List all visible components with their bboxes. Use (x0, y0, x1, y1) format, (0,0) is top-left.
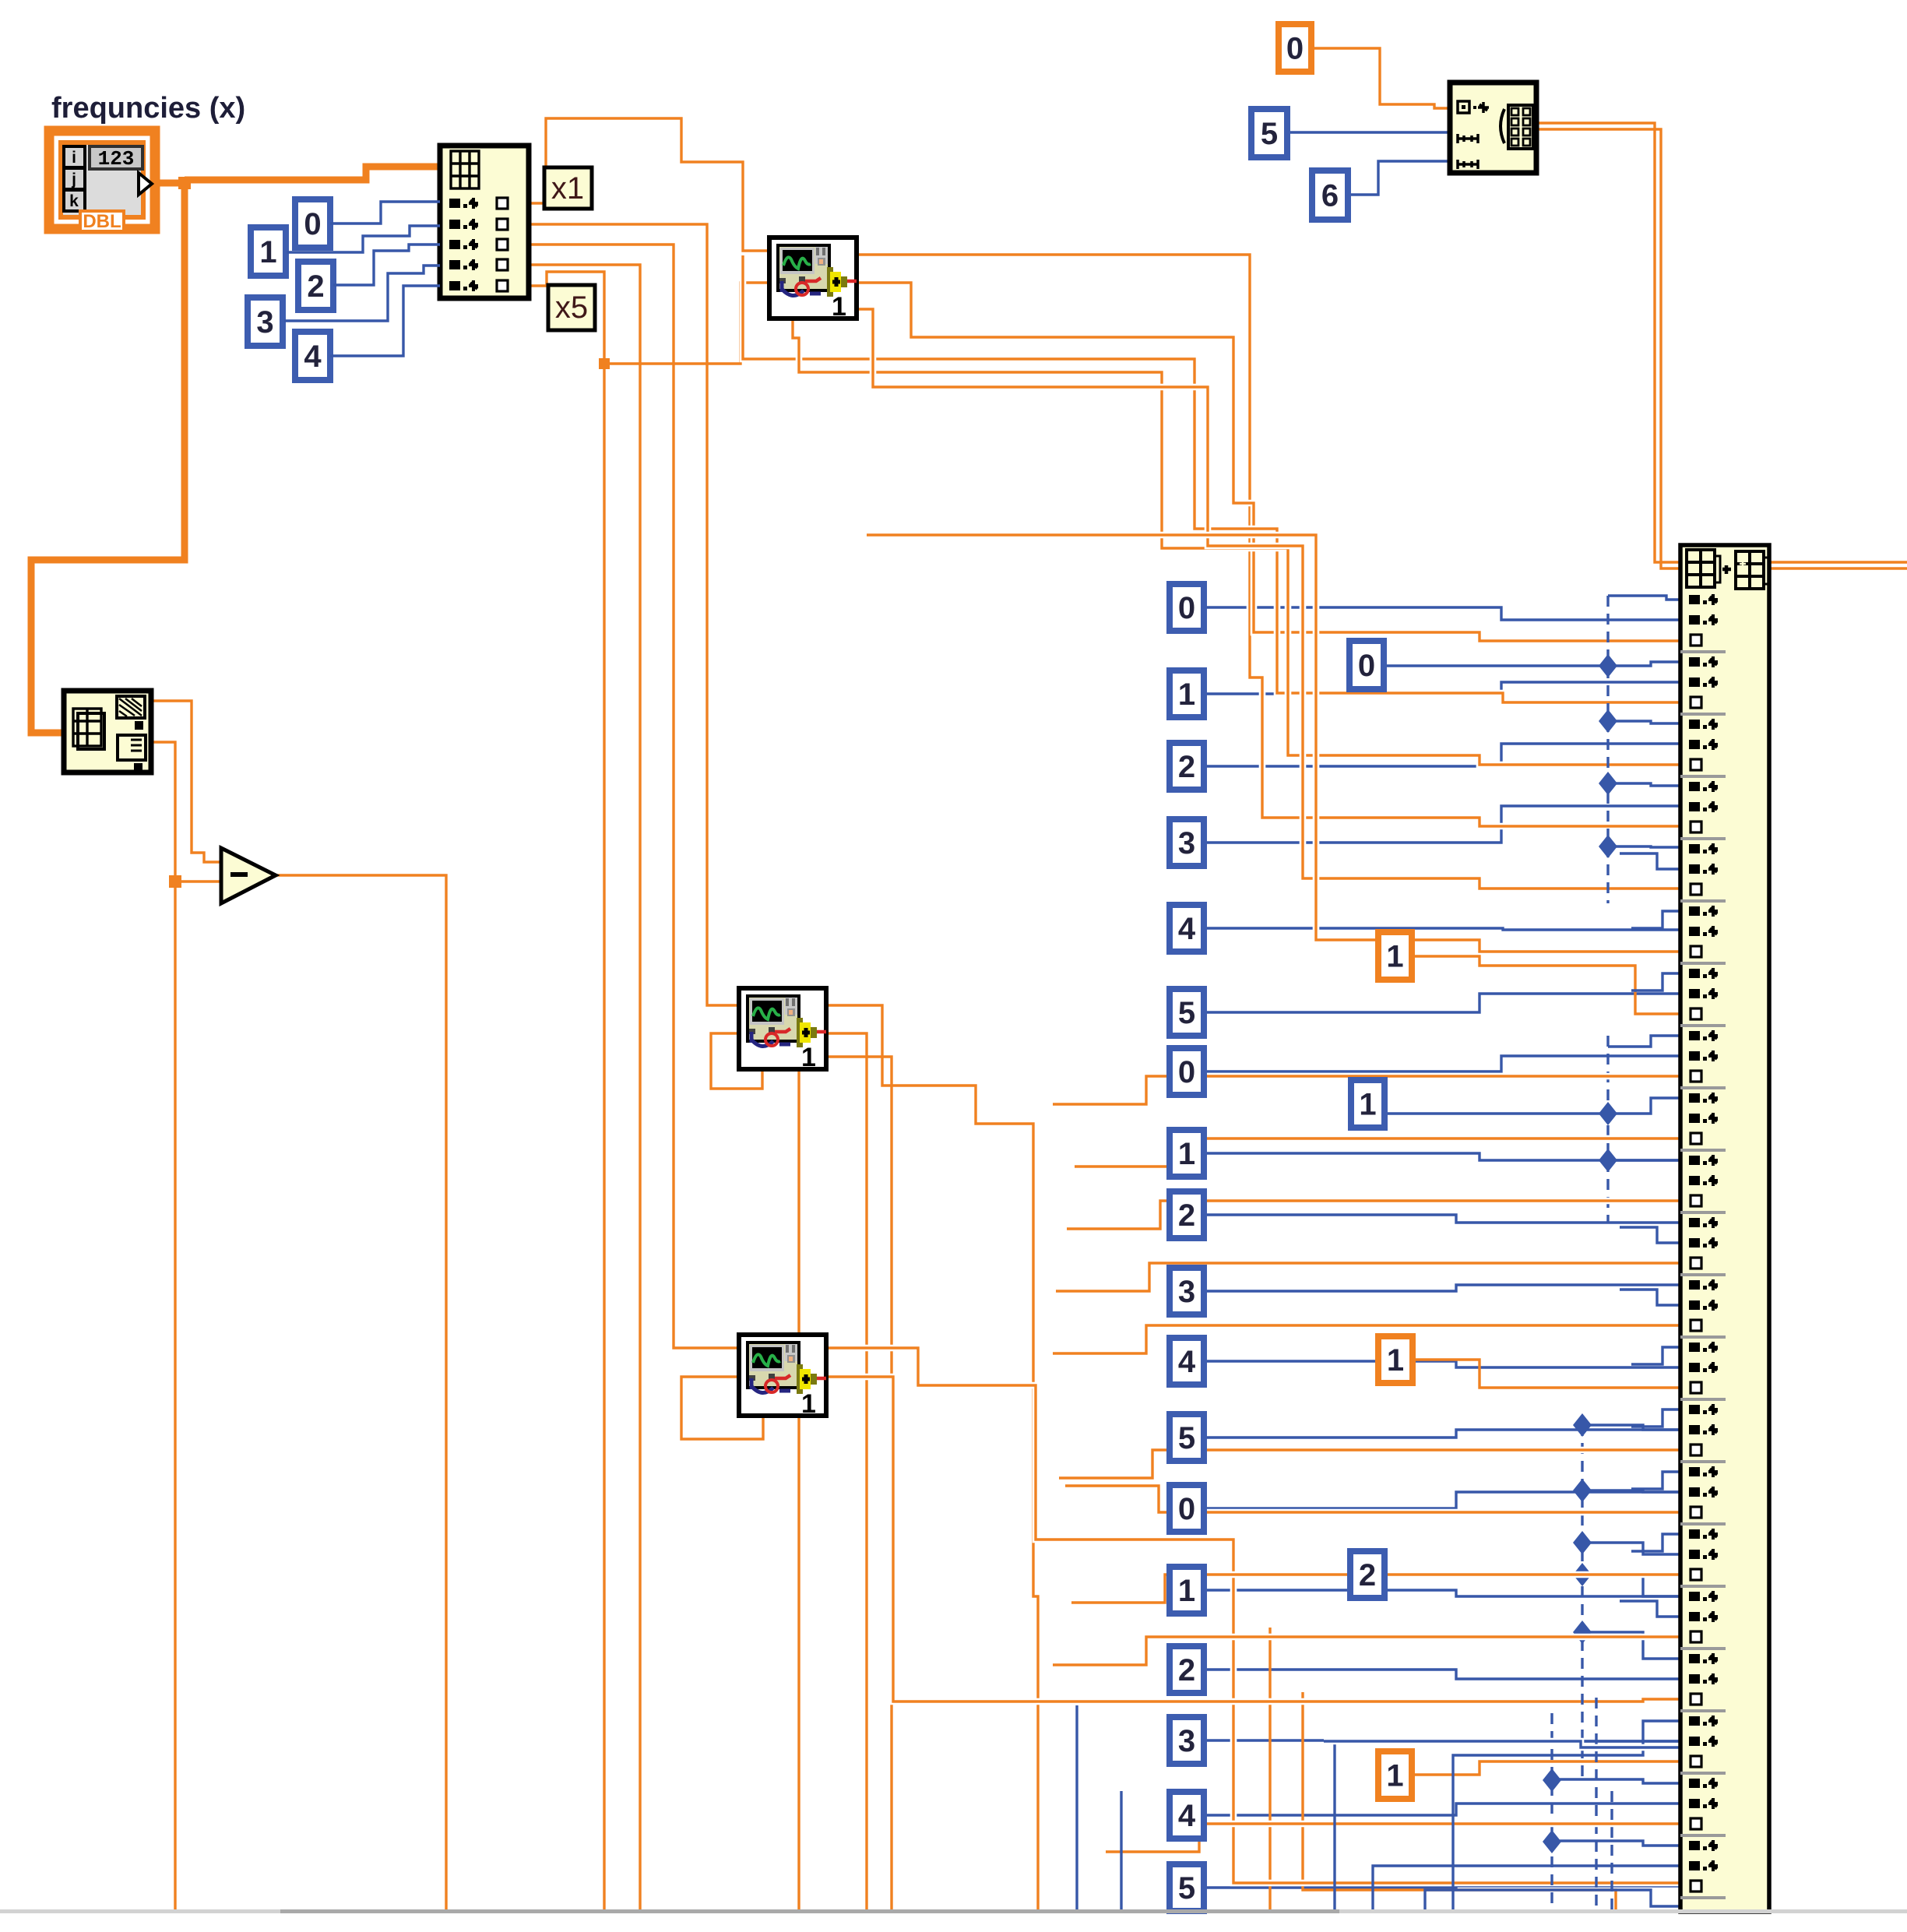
wire blue from left-column constant 10 to node input (1204, 1361, 1680, 1367)
svg-text:x1: x1 (551, 171, 584, 206)
svg-text:2: 2 (1359, 1558, 1376, 1592)
wire blue from left-column constant 6 to node input (1204, 1056, 1680, 1072)
constant 2 (left column y=1560) (1170, 1191, 1204, 1238)
constant 5 (left column y=1300) (1170, 989, 1204, 1036)
wire blue distribution vertical D4 with dots (1543, 1713, 1680, 1909)
wire blue from left-column constant 9 to node input (1204, 1285, 1680, 1291)
wire D3 branch at 1981 (1573, 1531, 1680, 1554)
wire blue stub into node row 1810 (1631, 1409, 1680, 1427)
wire funnel 2 x1-line branch to node row (743, 255, 1680, 702)
wire orange feeder to square row 2342 (1106, 1824, 1680, 1852)
svg-text:0: 0 (1286, 32, 1304, 66)
svg-text:1: 1 (1386, 940, 1403, 974)
wire blue L bottom 3 (1425, 1890, 1680, 1909)
wire blue from left-column constant 0 to node input (1204, 607, 1680, 620)
svg-text:2: 2 (1178, 1198, 1195, 1233)
wire blue vertical filler 1 (1075, 1705, 1078, 1909)
wire blue stub into node row 1596 (1620, 1227, 1680, 1243)
svg-text:k: k (69, 192, 79, 210)
wire x5 branch to simulate-signal 1 lower input (604, 283, 769, 364)
wire blue stub into node row 1970 (1631, 1534, 1680, 1551)
wire blue from left-column constant 11 to node input (1204, 1430, 1680, 1438)
svg-text:3: 3 (1178, 826, 1195, 860)
wire blue from left-column constant 17 to node input (1204, 1886, 1680, 1888)
constant 1 (col2 orange upper) (1378, 932, 1412, 980)
svg-text:0: 0 (1178, 1055, 1195, 1089)
wire thick matrix from frequncies terminal to junction (153, 180, 180, 187)
svg-text:frequncies (x): frequncies (x) (51, 92, 245, 125)
wire D1 branch at 926 (1599, 709, 1680, 733)
constant 2 (col2 blue) (1350, 1551, 1385, 1598)
wire orange vertical filler bottom right A (1268, 1628, 1271, 1909)
wire orange from constant 1 (col2 middle) to node row (1413, 1360, 1680, 1388)
scrollbar top line (0, 1909, 1907, 1913)
svg-text:6: 6 (1321, 179, 1339, 213)
wire blue from left-column constant 13 to node input (1204, 1590, 1680, 1596)
constant 4 (left column y=1192) (1170, 905, 1204, 952)
wire index row4 out long vertical to bottom (529, 265, 640, 1909)
build-matrix big node with repeated element/index inputs (1680, 545, 1769, 1912)
wire blue L bottom extra1 (1453, 1721, 1680, 1909)
constant 0 (left column y=780) (1170, 584, 1204, 631)
svg-text:i: i (72, 149, 76, 167)
svg-text:123: 123 (98, 147, 135, 171)
wire orange feeder to square row 1702 (1053, 1325, 1680, 1353)
wire blue constant1 to index row2 (287, 226, 440, 252)
svg-text:2: 2 (1178, 750, 1195, 784)
wire sim3 bottom output wrap to its lower-left input (681, 1377, 763, 1439)
wire orange from constant 1 (col2 lower) to node row (1412, 1761, 1680, 1775)
simulate-signal express VI 3 (739, 1335, 826, 1419)
wire D2 branch at 1490 (1599, 1149, 1680, 1172)
wire D1 branch at 855 (1599, 654, 1680, 677)
wire orange vertical filler near sim2 (797, 1068, 800, 1909)
wire branch to subtract y input (175, 880, 221, 882)
simulate-signal express VI 1 (769, 238, 857, 322)
svg-text:4: 4 (1178, 1345, 1196, 1379)
wire blue from left-column constant 16 to node input (1204, 1804, 1680, 1815)
wire D2 branch at 1344 (1608, 1036, 1680, 1047)
svg-text:0: 0 (1178, 591, 1195, 625)
wire double matrix output of big node to right edge (1769, 562, 1907, 568)
constant 1 (col2 orange lower) (1378, 1751, 1412, 1799)
wire blue stub into node row 1730 (1631, 1347, 1680, 1364)
svg-text:x5: x5 (555, 290, 588, 325)
wire sim3 top-right output staircase to node bottom row (826, 1348, 1680, 1883)
svg-text:5: 5 (1178, 996, 1195, 1030)
wire x1 line: index row1 out to simulate-signal 1 top input (529, 118, 769, 251)
wire blue stub into node row 1250 (1631, 973, 1680, 991)
wire blue distribution vertical D2 dashed (1606, 1036, 1609, 1223)
svg-text:1: 1 (259, 235, 276, 269)
svg-text:1: 1 (1386, 1759, 1403, 1793)
constant 0 (left column y=1376) (1170, 1048, 1204, 1095)
wire D3 branch at 1914 (1573, 1479, 1680, 1502)
label x1 constant (544, 167, 592, 209)
wire blue from left-column constant 5 to node input (1204, 994, 1680, 1012)
wire thick matrix down-left to matrix-size node (31, 183, 185, 733)
wire sim2 lower-right output long vertical to bottom (827, 1057, 892, 1909)
wire blue stub into node row 1116 (1620, 853, 1680, 869)
wire blue dashed vertical bottom right B (1610, 1791, 1613, 1909)
wire orange feeder to square row 2022 (1071, 1575, 1680, 1603)
wire orange vertical filler bottom right B (1303, 1692, 1616, 1909)
svg-text:4: 4 (304, 340, 322, 374)
svg-text:1: 1 (1359, 1088, 1376, 1122)
wire blue L bottom 1 (1335, 1741, 1680, 1909)
constant 2 (top-left group) (298, 262, 333, 310)
wire blue from left-column constant 2 to node input (1204, 744, 1680, 766)
constant 1 (left column y=1481) (1170, 1130, 1204, 1177)
wire orange from constant 0 to create-matrix node (1311, 48, 1450, 108)
wire junction dot on matrix-size output (169, 875, 181, 888)
wire double matrix from create-matrix node to big node header (1536, 123, 1680, 568)
subtract node (221, 848, 276, 903)
svg-text:5: 5 (1178, 1421, 1195, 1455)
svg-text:1: 1 (1178, 1137, 1195, 1171)
constant 0 (top-left group) (295, 199, 330, 248)
wire D1 branch at 1087 (1599, 835, 1680, 858)
wire thick matrix from junction to index-array node (185, 167, 440, 180)
wire index row2 out down to simulate-signal 2 top input (529, 224, 739, 1005)
constant 3 (left column y=1082) (1170, 819, 1204, 866)
svg-text:2: 2 (307, 269, 324, 304)
wire blue from constant 0 (col2) to distribution vertical (1384, 664, 1608, 667)
wire blue from left-column constant 3 to node input (1204, 806, 1680, 843)
constant 6 (top-right) (1312, 171, 1348, 220)
label frequncies (x) (51, 92, 245, 125)
wire blue stub into node row 1170 (1631, 911, 1680, 928)
svg-text:3: 3 (256, 305, 273, 340)
wire blue stub into node row 2076 (1620, 1601, 1680, 1617)
constant 2 (left column y=984) (1170, 743, 1204, 790)
simulate-signal express VI 2 (739, 988, 826, 1072)
wire sim3 mid-right output to node row via bottom run (826, 1377, 1680, 1701)
constant 3 (left column y=2235) (1170, 1717, 1204, 1764)
constant 3 (left column y=1658) (1170, 1268, 1204, 1314)
wire junction dot on x5 line (599, 358, 610, 369)
svg-text:1: 1 (1178, 677, 1195, 712)
wire blue from constant 5 to create-matrix node (1287, 131, 1450, 133)
wire orange feeder to square row 2102 (1053, 1637, 1680, 1665)
wire D1 branch at 1006 (1599, 772, 1680, 795)
wire blue vertical filler 2 (1120, 1791, 1122, 1909)
constant 2 (left column y=2144) (1170, 1646, 1204, 1693)
wire matrix-size top output to subtract x input (151, 701, 221, 862)
svg-text:0: 0 (304, 207, 321, 241)
constant 4 (top-left group) (295, 332, 330, 380)
wire funnel 1 sim1 mid output to node row (857, 283, 1680, 641)
wire orange feeder to square row 1622 (1056, 1263, 1680, 1291)
wire orange feeder to square row 1462 (1075, 1138, 1680, 1167)
constant 4 (left column y=2331) (1170, 1792, 1204, 1839)
wire blue from constant 6 to create-matrix node (1348, 161, 1450, 195)
wire funnel 4 sim1 lower-right output to node row (857, 309, 1680, 889)
svg-text:0: 0 (1178, 1492, 1195, 1526)
constant 1 (top-left group) (251, 227, 286, 276)
wire funnel 3 sim1 bottom output to node row (793, 319, 1680, 765)
wire blue from left-column constant 4 to node input (1204, 928, 1680, 930)
wire D3 branch at 2096 (1573, 1621, 1680, 1659)
wire blue from constant 2 (col2) to distribution vertical (1385, 1573, 1582, 1575)
wire D3 branch at 1830 (1573, 1413, 1680, 1437)
constant 5 (top-right) (1251, 109, 1287, 157)
svg-text:1: 1 (801, 1389, 816, 1419)
wire blue constant4 to index row5 (330, 286, 440, 356)
wire orange feeder to square row 1862 (1059, 1450, 1680, 1478)
wire matrix-size bottom output down to bottom edge (151, 742, 175, 1909)
wire blue from left-column constant 7 to node input (1204, 1153, 1680, 1160)
constant 0 (col2) (1349, 641, 1384, 689)
wire blue from left-column constant 14 to node input (1204, 1670, 1680, 1679)
constant 5 (left column y=1846) (1170, 1414, 1204, 1461)
wire blue constant2 to index row3 (333, 245, 440, 285)
index-array style node with 5 index inputs (440, 146, 529, 298)
wire orange feeder to square row 1542 (1067, 1201, 1680, 1229)
svg-text:0: 0 (1358, 649, 1375, 683)
wire x5 line: index row5 out long vertical to bottom (529, 272, 604, 1909)
svg-text:3: 3 (1178, 1275, 1195, 1309)
constant 5 (left column y=2424) (1170, 1864, 1204, 1911)
wire blue from left-column constant 12 to node input (1204, 1492, 1680, 1508)
wire blue stub into node row 1676 (1620, 1290, 1680, 1305)
wire blue dashed vertical bottom right A (1595, 1698, 1597, 1909)
wire sim2 mid-right output long vertical to bottom (827, 1033, 867, 1909)
wire funnel 5 to node row (867, 535, 1680, 952)
wire blue from left-column constant 8 to node input (1204, 1215, 1680, 1223)
constant 1 (left column y=2042) (1170, 1567, 1204, 1614)
wire orange from constant 1 (col2 upper) to node row (1412, 956, 1680, 1014)
svg-text:2: 2 (1178, 1653, 1195, 1687)
constant 0 (left column y=1937) (1170, 1485, 1204, 1532)
wire blue L bottom 2 (1373, 1866, 1680, 1909)
constant 4 (left column y=1748) (1170, 1338, 1204, 1385)
svg-text:1: 1 (832, 292, 846, 322)
constant 1 (left column y=891) (1170, 670, 1204, 717)
wire D3 branch at 2022 (1573, 1563, 1680, 1596)
wire blue from left-column constant 15 to node input (1204, 1740, 1680, 1741)
svg-text:3: 3 (1178, 1724, 1195, 1758)
control terminal frequncies(x) DBL (49, 131, 155, 232)
wire orange feeder to square row 1382 (1053, 1076, 1680, 1104)
constant 3 (top-left group) (248, 297, 283, 346)
svg-text:4: 4 (1178, 1799, 1196, 1833)
wire blue stub into node row 1890 (1631, 1472, 1680, 1489)
wire D1 top branch into node row1 (1608, 596, 1680, 600)
wire blue distribution vertical D1 dashed (1606, 596, 1609, 903)
wire sim2 bottom output wrap to its lower-left input (711, 1033, 762, 1089)
svg-text:5: 5 (1261, 117, 1278, 151)
constant 0 (top-right, orange) (1279, 24, 1311, 72)
wire blue distribution vertical D3 dashed (1581, 1425, 1583, 1783)
wire index row3 out down to simulate-signal 3 top input (529, 245, 739, 1348)
svg-text:DBL: DBL (83, 211, 121, 232)
svg-text:1: 1 (801, 1043, 816, 1072)
wire blue from constant 1 (col2) to node rows (1384, 1112, 1608, 1114)
matrix-size node (64, 691, 151, 772)
constant 1 (col2 orange middle) (1378, 1336, 1413, 1383)
svg-text:4: 4 (1178, 912, 1196, 946)
wire sim2 top-right output staircase down and along bottom (827, 1005, 1038, 1909)
wire blue L bottom extra2 (1324, 1741, 1680, 1747)
svg-text:5: 5 (1178, 1871, 1195, 1906)
wire D2 branch at 1430 (1599, 1098, 1680, 1125)
constant 1 (col2 blue) (1351, 1080, 1385, 1128)
create-matrix node (top right) (1450, 83, 1536, 173)
svg-text:1: 1 (1178, 1574, 1195, 1608)
wire blue from left-column constant 1 to node input (1204, 682, 1680, 694)
wire junction dot at terminal branch (178, 177, 191, 189)
label x5 constant (548, 285, 595, 330)
svg-text:j: j (71, 171, 76, 188)
svg-text:1: 1 (1387, 1343, 1404, 1378)
wire subtract output long vertical to bottom (276, 875, 446, 1909)
wire funnel top sim1 top output to node row (857, 255, 1680, 826)
wire blue constant3 to index row4 (284, 266, 440, 321)
wire orange feeder to square row 1942 (1065, 1486, 1680, 1512)
wire blue constant0 to index row1 (330, 202, 440, 223)
